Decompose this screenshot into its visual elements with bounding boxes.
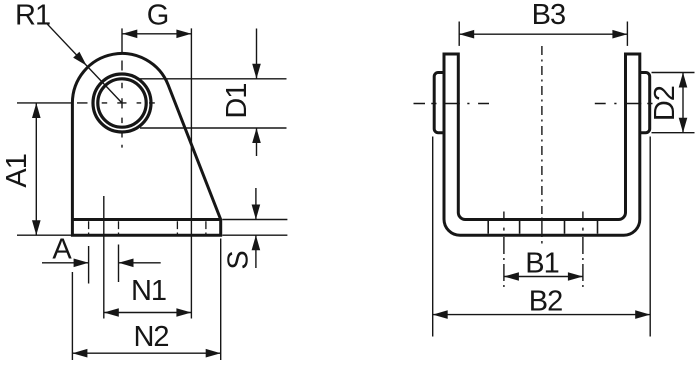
left view mounting hole 1 hidden edges xyxy=(88,221,90,234)
svg-text:B3: B3 xyxy=(532,0,565,31)
dimension N2 extension lines xyxy=(71,272,73,360)
svg-text:R1: R1 xyxy=(15,0,50,32)
dimension R1 leader xyxy=(47,24,122,103)
dimension A extension lines xyxy=(88,246,90,284)
dimension S line xyxy=(255,188,257,220)
left view hole vertical centerline xyxy=(121,28,123,52)
left view mounting hole 2 hidden edges xyxy=(176,221,178,234)
dimension B3 extension lines xyxy=(458,22,460,46)
svg-text:A1: A1 xyxy=(1,154,33,187)
dimension G line xyxy=(122,33,191,35)
svg-text:A: A xyxy=(52,234,72,266)
svg-text:S: S xyxy=(223,251,255,270)
dimension N1 line xyxy=(104,312,192,314)
right view left pivot boss xyxy=(434,73,444,133)
svg-text:D1: D1 xyxy=(221,84,253,119)
left view base plate top edge xyxy=(72,218,220,221)
dimension D1 line xyxy=(256,29,258,79)
dimension S extension lines xyxy=(222,219,287,221)
left view mounting hole 2 centerline / G right extension xyxy=(190,28,192,318)
dimension N2 line xyxy=(72,352,220,354)
svg-text:B2: B2 xyxy=(529,286,562,318)
dimension D2 extension lines xyxy=(652,72,695,74)
left view bushing outer circle xyxy=(93,74,151,132)
dimension B1 line xyxy=(504,276,583,278)
right view base hole 1 centerline xyxy=(503,212,505,219)
svg-text:D2: D2 xyxy=(649,86,681,121)
right view U-channel outline xyxy=(444,54,640,235)
left view mounting hole 1 centerline xyxy=(103,196,105,319)
dimension B2 line xyxy=(433,314,651,316)
left view hole inner circle xyxy=(98,79,146,127)
svg-text:G: G xyxy=(147,0,169,32)
right view pivot axis centerline right xyxy=(595,103,653,105)
dimension A1 extension lines xyxy=(17,234,71,236)
left view bracket outline xyxy=(72,53,220,235)
right view base hole 2 centerline xyxy=(582,212,584,219)
svg-text:B1: B1 xyxy=(525,248,558,280)
right view right pivot boss xyxy=(640,73,650,133)
dimension B2 extension lines xyxy=(432,137,434,337)
svg-text:N1: N1 xyxy=(131,275,166,307)
left view hole horizontal centerline xyxy=(17,102,72,104)
dimension B3 line xyxy=(459,33,627,35)
dimension D1 extension lines xyxy=(140,78,287,80)
dimension A line xyxy=(42,262,89,264)
svg-text:N2: N2 xyxy=(133,321,168,353)
right view middle vertical centerline xyxy=(541,46,543,214)
right view base hole 2 edges xyxy=(564,221,566,234)
dimension D2 line xyxy=(682,73,684,133)
dimension A1 line xyxy=(35,103,37,235)
right view base hole 1 edges xyxy=(487,221,489,234)
right view pivot axis centerline left xyxy=(414,103,490,105)
